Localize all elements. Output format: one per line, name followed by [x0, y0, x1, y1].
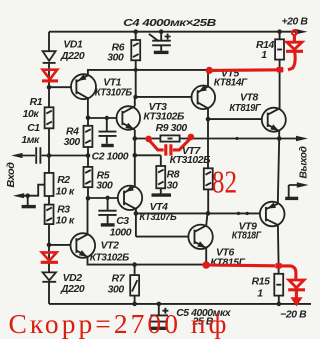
svg-text:КТ3102Б: КТ3102Б — [143, 112, 184, 123]
red capacitor mod across R9 — [145, 134, 194, 156]
svg-text:R1: R1 — [30, 97, 43, 108]
transistor VT8 КТ819Г — [262, 108, 286, 132]
wire 82 resistor bottom lead — [207, 189, 209, 213]
svg-text:R7: R7 — [112, 273, 126, 284]
svg-text:300: 300 — [108, 285, 125, 296]
node VD2/VT2 base junction — [47, 243, 52, 248]
diode VD1 — [43, 51, 56, 63]
wire VT4 base — [88, 197, 124, 199]
resistor 82 (mod) — [204, 168, 213, 189]
svg-text:Д220: Д220 — [60, 284, 85, 295]
wire top +20V rail — [49, 31, 296, 33]
node red VT6 emitter dot — [202, 261, 210, 269]
svg-text:Скорр=2700 пф: Скорр=2700 пф — [9, 308, 227, 339]
ground input — [27, 196, 29, 205]
wire VT1 base — [49, 86, 76, 88]
wire VT8 base — [208, 118, 268, 120]
transistor VT5 КТ814Г — [192, 85, 216, 109]
wire output to VT9 emitter — [278, 139, 279, 204]
svg-text:VD2: VD2 — [63, 273, 83, 284]
svg-text:R9 300: R9 300 — [156, 123, 188, 134]
node red R15 top square — [275, 263, 282, 268]
diode red mod below VD1 — [42, 70, 58, 81]
resistor R8 — [152, 155, 172, 195]
wire VT2 emitter to lower mid rail — [88, 257, 207, 265]
svg-text:1: 1 — [261, 50, 267, 61]
diode red mod parallel R14 — [286, 30, 303, 70]
wire output arrow — [279, 138, 296, 140]
wire R15 bottom lead — [278, 296, 280, 304]
transistor VT4 КТ3107Б — [118, 185, 142, 210]
ground output terminal — [289, 185, 298, 197]
resistor R5 — [84, 167, 93, 187]
transistor VT6 КТ815Г — [188, 225, 212, 249]
node VT4 collector T — [134, 211, 139, 216]
svg-text:R4: R4 — [66, 127, 79, 138]
node VT9 base row junction — [206, 211, 211, 216]
wire red top rail mod — [209, 68, 283, 72]
wire VT4 collector down and branches — [136, 209, 208, 237]
resistor R7 — [130, 265, 139, 304]
svg-text:КТ3102Б: КТ3102Б — [90, 252, 129, 263]
resistor R15 — [274, 274, 283, 296]
resistor R1 — [45, 107, 54, 128]
wire VT5 collector down column — [207, 108, 209, 168]
resistor R14 — [275, 39, 284, 59]
wire VT6 emitter down — [205, 248, 207, 265]
svg-text:КТ819Г: КТ819Г — [229, 103, 261, 114]
wire VT1 emitter to mid rail — [88, 70, 209, 75]
svg-text:R8: R8 — [167, 169, 180, 180]
transistor VT1 КТ3107Б — [71, 74, 96, 99]
wire R6 top lead — [135, 32, 137, 40]
svg-text:1мк: 1мк — [21, 135, 40, 146]
svg-text:300: 300 — [96, 181, 113, 192]
svg-text:КТ818Г: КТ818Г — [232, 230, 262, 241]
svg-text:VD1: VD1 — [63, 40, 83, 51]
node R14 top rail — [277, 29, 282, 34]
node VT1 collector / VT3 base — [86, 116, 91, 121]
svg-text:КТ814Г: КТ814Г — [214, 78, 248, 89]
capacitor C2 — [99, 118, 117, 146]
wire VT4 emitter up / VT3 emitter column — [134, 130, 136, 187]
svg-text:10 к: 10 к — [56, 186, 75, 197]
svg-text:C2 1000: C2 1000 — [92, 152, 129, 163]
capacitor C5 — [149, 304, 168, 328]
transistor VT2 КТ3102Б — [71, 233, 96, 258]
wire VT8 emitter to output node — [278, 131, 280, 139]
wire VT3 collector / R6 column — [134, 60, 137, 106]
diode red mod parallel R15 — [282, 266, 305, 307]
resistor R9 — [135, 135, 279, 141]
svg-text:300: 300 — [64, 137, 81, 148]
svg-text:Вход: Вход — [6, 161, 17, 187]
svg-text:VT8: VT8 — [240, 92, 258, 103]
resistor R6 — [131, 40, 140, 60]
svg-text:10к: 10к — [23, 109, 40, 120]
node output junction — [277, 136, 282, 141]
node R6 bottom rail junction — [134, 68, 138, 72]
wire R14 leads / VT8 collector column — [279, 32, 281, 109]
transistor VT9 КТ818Г — [260, 202, 285, 227]
wire input upper with arrow — [22, 155, 89, 157]
svg-text:10 к: 10 к — [56, 215, 75, 226]
wire VT9 base row — [208, 212, 266, 214]
svg-text:82: 82 — [212, 165, 237, 200]
+20V terminal arrow — [295, 29, 308, 35]
node R5 bottom / VT4 base — [86, 196, 91, 201]
wire R4 leads — [87, 118, 89, 156]
node output wire mid dot — [235, 137, 238, 140]
node C4 top rail — [159, 29, 164, 34]
capacitor C4 — [149, 32, 171, 53]
wire input lower with arrow and step — [23, 185, 45, 196]
svg-text:R3: R3 — [57, 204, 70, 215]
node VT5 base wire junction — [133, 95, 137, 99]
svg-text:−20 В: −20 В — [280, 309, 307, 320]
resistor R2 — [45, 173, 54, 196]
node R15 bottom rail — [277, 302, 282, 307]
wire VT1 collector down — [87, 98, 89, 118]
wire R5 leads — [87, 156, 89, 199]
wire VT2 base — [49, 244, 76, 246]
svg-text:С4 4000мк×25В: С4 4000мк×25В — [123, 18, 217, 29]
transistor VT3 КТ3102Б — [117, 106, 141, 130]
wire VT6 collector up to base row — [206, 213, 207, 225]
wire bottom -20V rail — [49, 303, 311, 305]
node R9 wire left — [133, 136, 138, 141]
svg-text:R5: R5 — [97, 170, 110, 181]
resistor R4 — [84, 126, 93, 147]
wire VT3 base — [88, 117, 122, 119]
svg-text:C3: C3 — [116, 216, 129, 227]
svg-text:1000: 1000 — [110, 228, 132, 239]
svg-text:R2: R2 — [57, 175, 70, 186]
svg-text:КТ3102Б: КТ3102Б — [170, 155, 211, 166]
wire VT9 collector to R15 — [277, 225, 280, 274]
svg-text:+20 В: +20 В — [282, 16, 309, 27]
node red R14 bottom square — [277, 67, 284, 73]
wire VT2 collector up — [87, 198, 89, 234]
svg-text:VT2: VT2 — [101, 240, 119, 251]
svg-text:1: 1 — [257, 288, 263, 299]
svg-text:Выход: Выход — [298, 146, 309, 179]
svg-text:30: 30 — [167, 181, 178, 192]
node R4/R5 junction — [86, 153, 91, 158]
node C1/R1/R2 junction — [47, 153, 52, 158]
wire VT5 emitter up — [207, 70, 209, 86]
svg-text:300: 300 — [107, 52, 124, 63]
node red VT5 emitter dot — [206, 67, 213, 74]
svg-text:Д220: Д220 — [60, 51, 85, 62]
node R6 top rail — [133, 29, 138, 34]
node VT1 base junction — [47, 85, 52, 90]
diode VD2 — [42, 272, 56, 281]
wire left column (VD1/R1/R2/R3/VD2 chain) — [48, 32, 50, 304]
node VT5 collector / VT8 base — [206, 117, 211, 122]
capacitor C1 — [36, 147, 40, 163]
wire R8 branch — [135, 154, 161, 156]
svg-text:R15: R15 — [252, 277, 270, 288]
svg-text:КТ3107Б: КТ3107Б — [95, 88, 132, 99]
wire VT5 base — [136, 96, 198, 98]
diode red mod above VD2 — [41, 252, 58, 262]
capacitor C3 — [98, 198, 116, 225]
svg-text:C1: C1 — [27, 123, 40, 134]
resistor R3 — [45, 205, 54, 225]
wire red bottom rail mod — [206, 263, 275, 267]
svg-text:КТ815Г: КТ815Г — [210, 258, 245, 269]
node input lower junction — [25, 193, 30, 198]
